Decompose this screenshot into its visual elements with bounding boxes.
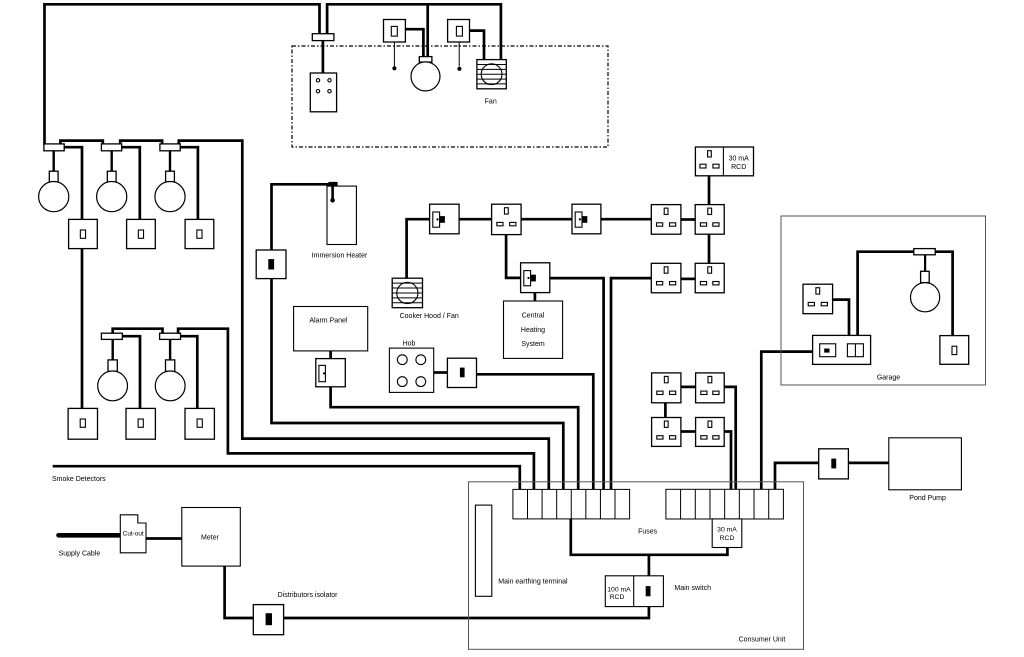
svg-text:Supply Cable: Supply Cable bbox=[59, 551, 101, 558]
svg-text:RCD: RCD bbox=[720, 535, 735, 542]
svg-text:Pond Pump: Pond Pump bbox=[909, 495, 946, 502]
svg-text:Central: Central bbox=[522, 312, 545, 319]
svg-text:30 mA: 30 mA bbox=[717, 527, 737, 534]
svg-text:Meter: Meter bbox=[201, 534, 220, 541]
svg-text:Hob: Hob bbox=[403, 340, 416, 347]
svg-text:Distributors isolator: Distributors isolator bbox=[278, 592, 339, 599]
svg-text:System: System bbox=[521, 341, 545, 348]
svg-text:Heating: Heating bbox=[521, 327, 545, 334]
svg-text:30 mA: 30 mA bbox=[729, 156, 750, 163]
svg-text:Immersion Heater: Immersion Heater bbox=[312, 253, 368, 260]
svg-text:Garage: Garage bbox=[877, 375, 900, 382]
svg-text:RCD: RCD bbox=[610, 594, 625, 601]
svg-text:Fuses: Fuses bbox=[638, 529, 658, 536]
svg-text:Main switch: Main switch bbox=[674, 585, 711, 592]
svg-text:Cooker Hood / Fan: Cooker Hood / Fan bbox=[400, 313, 459, 320]
svg-text:100 mA: 100 mA bbox=[607, 586, 631, 593]
svg-text:Smoke Detectors: Smoke Detectors bbox=[52, 476, 106, 483]
svg-text:Cut-out: Cut-out bbox=[123, 530, 144, 537]
svg-text:Alarm Panel: Alarm Panel bbox=[309, 317, 348, 324]
svg-text:RCD: RCD bbox=[731, 164, 746, 171]
svg-text:Main earthing terminal: Main earthing terminal bbox=[498, 579, 568, 586]
svg-text:Fan: Fan bbox=[485, 98, 497, 105]
svg-text:Consumer Unit: Consumer Unit bbox=[739, 637, 786, 644]
